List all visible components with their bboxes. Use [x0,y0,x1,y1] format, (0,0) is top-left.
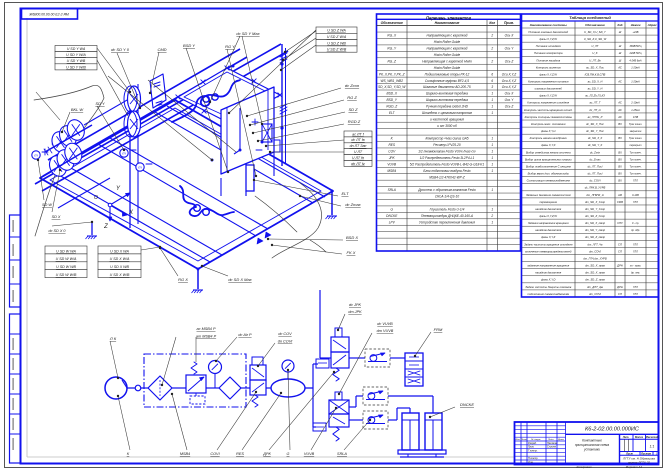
svg-text:1: 1 [491,111,493,115]
svg-text:Обозначение: Обозначение [585,23,605,27]
svg-text:Блок подготовки воздуха Festo: Блок подготовки воздуха Festo [423,169,470,173]
svg-text:dc_Zmax: dc_Zmax [589,157,601,161]
svg-text:фазы X,Y,Z,W: фазы X,Y,Z,W [540,37,558,41]
svg-text:U SD X W/B: U SD X W/B [110,273,130,277]
svg-text:Шаговые двигатели AD-200-75: Шаговые двигатели AD-200-75 [423,85,471,89]
svg-text:Листов: Листов [640,453,651,456]
svg-text:ac ЛТ f: ac ЛТ f [352,132,364,136]
svg-text:dm_ЛГТ_Чв: dm_ЛГТ_Чв [588,242,603,246]
svg-text:Подп.: Подп. [548,438,554,441]
svg-text:MSB4-1/2-47K042-WP-Z: MSB4-1/2-47K042-WP-Z [429,175,465,179]
svg-text:1: 1 [491,150,493,154]
svg-text:Наименование системы: Наименование системы [530,23,567,27]
svg-text:Оси X,Y,Z: Оси X,Y,Z [502,72,517,76]
svg-text:RES: RES [388,143,395,147]
svg-text:Шарико-винтовая передача: Шарико-винтовая передача [426,98,468,102]
svg-text:Масштаб: Масштаб [646,435,659,439]
svg-text:COVI: COVI [210,452,220,456]
svg-text:IСВ,ПМ,К,В,СПВ: IСВ,ПМ,К,В,СПВ [585,72,606,76]
svg-text:dc ЛТ fв: dc ЛТ fв [351,138,364,142]
svg-text:2: 2 [490,214,493,218]
svg-text:WS_WB1_WB2: WS_WB1_WB2 [381,79,404,83]
svg-text:Разраб.: Разраб. [528,442,537,445]
svg-text:Прим.: Прим. [504,21,514,25]
svg-text:1: 1 [491,105,493,109]
svg-text:1: 1 [491,137,493,141]
svg-text:др. лев.: др. лев. [631,272,640,275]
svg-text:Пневмоцилиндры ДНЦКЕ-40-160-А: Пневмоцилиндры ДНЦКЕ-40-160-А [421,214,473,218]
svg-text:BSD Y: BSD Y [183,43,195,48]
svg-text:O: O [94,195,98,201]
svg-text:SD W: SD W [42,203,52,207]
svg-text:U_SD_X,U_SD_Y: U_SD_X,U_SD_Y [584,30,606,34]
svg-text:U SD Y WB: U SD Y WB [67,59,86,63]
svg-text:Тип конеч.: Тип конеч. [629,165,641,168]
svg-text:ВХ: ВХ [618,136,622,140]
svg-text:dc SD X 0: dc SD X 0 [48,229,66,233]
svg-text:№ докум.: № докум. [531,438,541,441]
svg-text:Трех конеч.: Трех конеч. [629,123,643,126]
svg-text:U_K: U_K [592,51,597,55]
svg-text:Лист: Лист [520,439,527,441]
svg-text:BKL W: BKL W [71,107,85,112]
svg-text:ГЛЛ: ГЛЛ [633,243,638,246]
svg-text:Обозначение: Обозначение [381,21,403,25]
svg-text:Контроль толщины пневмосистемы: Контроль толщины пневмосистемы [525,115,572,119]
svg-text:ДРК: ДРК [262,452,271,456]
svg-text:2-10мА: 2-10мА [630,102,640,105]
svg-text:RG X: RG X [178,277,188,282]
svg-text:U ЛТ fн: U ЛТ fн [352,156,364,160]
svg-text:1-25мА: 1-25мА [631,109,640,112]
svg-text:Ось X: Ось X [505,92,515,96]
svg-text:DNCKE: DNCKE [460,402,474,407]
svg-text:dn ЛТ fг: dn ЛТ fг [351,162,365,166]
svg-text:dc_SD_Y_Пос: dc_SD_Y_Пос [586,129,604,133]
svg-text:Кол: Кол [489,21,495,25]
svg-text:Лист: Лист [625,453,634,456]
svg-text:4-24В 6мА: 4-24В 6мА [629,59,641,62]
svg-text:5/2 Распределитель Festo VUVB-: 5/2 Распределитель Festo VUVB-L-B42-G-G1… [410,162,485,166]
svg-text:и от 3000 об: и от 3000 об [437,124,457,128]
svg-text:U SD Z WB: U SD Z WB [327,41,346,45]
svg-text:SRLA: SRLA [337,452,347,456]
svg-text:Ресивер LPV25-20: Ресивер LPV25-20 [433,143,461,147]
svg-text:пр. обр.: пр. обр. [631,229,640,232]
svg-text:G: G [287,452,290,456]
svg-text:СПУ: СПУ [617,221,623,225]
svg-text:Задачных движения пневмосистем: Задачных движения пневмосистем [526,193,571,197]
svg-text:Подшипниковые опоры PK-12: Подшипниковые опоры PK-12 [425,72,470,76]
svg-text:SD X: SD X [52,215,61,219]
svg-text:U SD Y W/B: U SD Y W/B [66,65,86,69]
svg-text:Выбор лимба включения С секция: Выбор лимба включения С секциям [526,164,571,168]
svg-text:принципиальная схема: принципиальная схема [575,443,610,447]
svg-text:dm_SD_X_прав: dm_SD_X_прав [585,264,605,268]
svg-text:1: 1 [491,162,493,166]
svg-text:dc COV: dc COV [278,332,292,336]
svg-text:Пров.: Пров. [528,446,535,449]
svg-text:2: 2 [490,47,493,51]
svg-text:dc_SD_Y_0: dc_SD_Y_0 [588,143,603,147]
svg-text:dc Zcon: dc Zcon [345,83,360,88]
svg-text:фазы X,Y,Z: фазы X,Y,Z [541,235,555,239]
svg-text:Наименование: Наименование [435,21,460,25]
svg-text:1: 1 [491,98,493,102]
svg-text:U SD X WA: U SD X WA [110,249,129,253]
svg-text:U SD Y WA: U SD Y WA [67,47,86,51]
svg-text:и частотой вращения: и частотой вращения [430,117,464,121]
svg-text:1-20мА: 1-20мА [631,81,640,84]
svg-text:ac_Л2,Zb,Л1,КЗ: ac_Л2,Zb,Л1,КЗ [585,94,605,98]
svg-text:1: 1 [491,169,493,173]
svg-text:Т.контр.: Т.контр. [528,449,538,452]
svg-text:Контроль макс. положения: Контроль макс. положения [531,122,566,126]
svg-text:АС: АС [617,115,622,119]
svg-text:Ось X: Ось X [505,34,515,38]
svg-text:Оси X,Y,Z: Оси X,Y,Z [502,85,517,89]
svg-text:Питание шпинделя: Питание шпинделя [536,44,561,48]
svg-text:ВХ: ВХ [618,157,622,161]
svg-text:SRLA: SRLA [388,188,396,192]
svg-text:dc_Zmin: dc_Zmin [590,150,601,154]
svg-text:ac_ЛТ_Т: ac_ЛТ_Т [590,101,601,105]
svg-text:dm_COVI: dm_COVI [589,249,601,253]
svg-text:Перечень элементов: Перечень элементов [426,15,471,20]
svg-text:BSD_Y: BSD_Y [387,98,398,102]
svg-text:Утв.: Утв. [528,461,534,464]
svg-text:ВХ: ВХ [618,122,622,126]
svg-text:ГЛЛ: ГЛЛ [633,250,638,253]
svg-text:Контроль частоты вращения шпин: Контроль частоты вращения шпинд. [524,108,573,112]
svg-text:Компрессор «Has Garus GA5: Компрессор «Has Garus GA5 [426,137,469,141]
svg-text:RGD_Z: RGD_Z [386,105,398,109]
svg-text:dc_SD_X_Пос: dc_SD_X_Пос [586,122,604,126]
svg-text:dc_SD_X_0: dc_SD_X_0 [588,136,603,140]
svg-text:U_ЛТ: U_ЛТ [592,44,599,48]
svg-text:dc JPK: dc JPK [349,303,361,307]
svg-text:Н.контр.: Н.контр. [528,457,538,460]
svg-text:SD Y: SD Y [95,101,105,106]
svg-text:VUVB: VUVB [304,452,315,456]
svg-text:Задания направления вращения: Задания направления вращения [528,221,569,225]
svg-text:ВХ: ВХ [618,179,622,183]
svg-text:Копировал: Копировал [577,465,592,469]
svg-text:BSD_X: BSD_X [387,92,398,96]
svg-text:насадков двигателя: насадков двигателя [535,228,562,232]
svg-text:перемещения: перемещения [540,201,558,204]
svg-text:фазы X,Y,0: фазы X,Y,0 [541,143,555,147]
svg-text:Тип конеч.: Тип конеч. [629,173,641,176]
svg-text:dm_SD_Z_Напр: dm_SD_Z_Напр [585,235,605,239]
svg-text:dc SD Y Max: dc SD Y Max [236,31,260,36]
svg-text:RGD Z: RGD Z [348,119,361,124]
svg-text:фазы X,Y,D: фазы X,Y,D [541,278,555,282]
svg-text:Трех конеч.: Трех конеч. [629,137,643,140]
svg-text:dn ЛТ Зап: dn ЛТ Зап [350,144,367,148]
svg-text:RG Y: RG Y [225,44,235,49]
svg-text:RG_Z: RG_Z [387,59,397,63]
svg-text:1-20мА: 1-20мА [631,66,640,69]
svg-text:VUVB: VUVB [387,162,397,166]
svg-text:Л К: Л К [109,336,117,341]
svg-text:Ось Y: Ось Y [505,47,515,51]
svg-text:Направляющая с кареткой: Направляющая с кареткой [427,34,468,38]
svg-text:dm_COVI: dm_COVI [589,292,601,296]
svg-text:MSB4: MSB4 [180,452,190,456]
svg-text:ГЛЛ: ГЛЛ [633,180,638,183]
svg-text:RG_X: RG_X [387,34,397,38]
svg-text:Масса: Масса [635,435,644,439]
svg-text:Питание компрессора: Питание компрессора [534,51,563,55]
svg-text:U SD X WB: U SD X WB [110,265,129,269]
svg-text:3: 3 [491,85,493,89]
svg-text:1: 1 [491,188,493,192]
svg-text:1: 1 [491,208,493,212]
svg-text:U SD Z W/B: U SD Z W/B [327,48,347,52]
svg-text:ГЛЛ: ГЛЛ [633,293,638,296]
svg-text:Ручная передача Gebel 2HD: Ручная передача Gebel 2HD [426,105,469,109]
svg-text:ДРН: ДРН [616,264,623,268]
svg-text:dm_SD_Z_прав: dm_SD_Z_прав [585,278,605,282]
svg-text:ac_SD_X_Н: ac_SD_X_Н [588,80,603,84]
svg-text:К6-2-02.00.00.000ИС: К6-2-02.00.00.000ИС [585,427,640,433]
svg-text:380В/50Гц: 380В/50Гц [629,45,642,48]
svg-text:0-5В: 0-5В [633,116,639,119]
svg-text:dm_ГЛЧ,dm_УУРВ: dm_ГЛЧ,dm_УУРВ [583,256,606,260]
svg-text:U ЛТ: U ЛТ [354,150,363,154]
svg-text:Контроль напряжения питания: Контроль напряжения питания [528,80,569,84]
svg-text:FK X: FK X [347,250,356,255]
svg-text:am MSB4 P: am MSB4 P [196,335,217,339]
svg-text:dm_SD_Y_Скор: dm_SD_Y_Скор [585,207,605,211]
svg-text:U SD W W/B: U SD W W/B [56,273,77,277]
svg-text:U_ЛТ_Вк: U_ЛТ_Вк [589,58,601,62]
svg-text:подключение пневмоснабжением: подключение пневмоснабжением [527,292,569,296]
svg-text:Шарико-винтовая передача: Шарико-винтовая передача [426,92,468,96]
svg-text:Выбор верхн./низ. объемов воды: Выбор верхн./низ. объемов воды [528,172,569,176]
svg-text:6: 6 [491,72,493,76]
svg-text:Z: Z [103,224,108,230]
svg-text:АС: АС [617,65,622,69]
svg-text:Hiwin Roller Guide: Hiwin Roller Guide [434,40,461,44]
svg-text:Задачи частоты Защиты клапанов: Задачи частоты Защиты клапанов [525,285,572,289]
svg-text:dm_ДЛТ_фв: dm_ДЛТ_фв [587,285,603,289]
svg-text:АМ: АМ [617,193,623,197]
svg-text:dc Zmax: dc Zmax [345,202,361,207]
svg-text:Контактные: Контактные [582,439,602,443]
svg-text:dm_SD_X_прав: dm_SD_X_прав [585,271,605,275]
svg-text:U SD W W/A: U SD W W/A [56,257,77,261]
svg-text:СП: СП [618,249,622,253]
svg-text:dm VUVB: dm VUVB [377,329,394,333]
svg-text:dm_SD_Y_Напр: dm_SD_Y_Напр [585,228,606,232]
svg-text:ac_SD_X_Пос: ac_SD_X_Пос [586,65,604,69]
svg-text:RES: RES [236,452,244,456]
svg-text:1: 1 [491,143,493,147]
svg-text:PK_X,PK_Y,PK_Z: PK_X,PK_Y,PK_Z [379,72,406,76]
svg-text:группа ЛГТУ-32: группа ЛГТУ-32 [628,460,650,464]
svg-text:фазы X,Y,Z,W: фазы X,Y,Z,W [540,94,558,98]
svg-text:Ось Y: Ось Y [505,98,515,102]
svg-text:Тип конеч.: Тип конеч. [629,158,641,161]
svg-text:Питание насадков: Питание насадков [536,58,560,62]
svg-text:BSD X: BSD X [346,235,358,240]
svg-text:Каб: Каб [617,23,622,27]
svg-text:Ось Z: Ось Z [505,105,515,109]
svg-text:Лит.: Лит. [622,435,630,439]
svg-text:FRM: FRM [434,327,443,332]
svg-text:U SD Y W/A: U SD Y W/A [66,53,86,57]
svg-text:Таблица соединений: Таблица соединений [569,15,611,20]
svg-text:Контроль напряжения шпинделя: Контроль напряжения шпинделя [527,101,569,105]
svg-text:фазы X,Y,H: фазы X,Y,H [541,129,555,133]
svg-text:ELT: ELT [341,191,349,196]
svg-text:заданное направление вращения: заданное направление вращения [526,264,569,268]
svg-text:220В 50Гц: 220В 50Гц [628,52,642,55]
svg-text:Направляющая с кареткой: Направляющая с кареткой [427,47,468,51]
svg-text:АС: АС [617,108,622,112]
svg-text:Hiwin Roller Guide: Hiwin Roller Guide [434,53,461,57]
svg-text:ac MSB4 P: ac MSB4 P [197,327,216,331]
svg-text:RG Z: RG Z [347,95,357,100]
svg-text:1:1: 1:1 [650,445,655,449]
svg-text:Дата: Дата [557,439,565,441]
svg-text:1/2 Распределитель Festo 3L2P4: 1/2 Распределитель Festo 3L2P4-L1 [420,156,475,160]
svg-text:1: 1 [491,92,493,96]
svg-text:RG_Y: RG_Y [387,47,397,51]
svg-text:dc SD X Max: dc SD X Max [228,277,252,282]
svg-text:1: 1 [491,156,493,160]
svg-text:0-10В: 0-10В [632,194,639,197]
svg-text:SD Z: SD Z [348,107,358,112]
svg-text:dm_SD_X_Скор: dm_SD_X_Скор [585,200,605,204]
svg-text:ВХ: ВХ [618,150,622,154]
svg-text:Направляющая с кареткой Hiwin: Направляющая с кареткой Hiwin [422,59,472,63]
svg-text:Глушитель Festo U-1/4: Глушитель Festo U-1/4 [430,208,465,212]
svg-text:dm_ЛГВПК_Н: dm_ЛГВПК_Н [586,193,603,197]
svg-text:Ось Z: Ось Z [505,59,515,63]
svg-text:U SD W WA: U SD W WA [56,249,76,253]
svg-text:по - прав.: по - прав. [630,265,641,268]
svg-text:АС: АС [617,80,622,84]
svg-text:2: 2 [490,34,493,38]
svg-text:dc_ЛРК,В_УУРВ: dc_ЛРК,В_УУРВ [585,186,606,190]
svg-text:Hiwin Roller Guide: Hiwin Roller Guide [434,66,461,70]
svg-text:COV: COV [388,150,396,154]
svg-text:K: K [127,452,130,456]
svg-text:6: 6 [491,79,493,83]
svg-text:фазы X,Y,Z,W: фазы X,Y,Z,W [540,214,558,218]
svg-text:фазы X,Y,Z,W: фазы X,Y,Z,W [540,72,558,76]
svg-text:dc Air P: dc Air P [238,333,252,337]
svg-text:Пахомов: Пахомов [547,442,558,445]
svg-text:перекрыт: перекрыт [629,144,641,147]
svg-text:U SD X W/A: U SD X W/A [110,257,130,261]
svg-text:ВХ: ВХ [618,164,622,168]
svg-text:0 - пр.: 0 - пр. [632,222,639,225]
svg-text:CMD: CMD [157,47,166,52]
svg-text:АС: АС [617,101,622,105]
svg-text:СП: СП [618,292,622,296]
svg-text:ГЛЛ: ГЛЛ [633,286,638,289]
svg-text:Ж6В00.00.00.00 Е2-2-ЯМ: Ж6В00.00.00.00 Е2-2-ЯМ [28,13,69,17]
svg-text:U SD Z WA: U SD Z WA [327,29,346,33]
svg-text:SD_X,SD_Y,SD_W: SD_X,SD_Y,SD_W [378,85,406,89]
svg-text:Устройство переключения давлен: Устройство переключения давления [419,220,475,224]
svg-text:шаговых двигателей: шаговых двигателей [535,87,563,91]
svg-text:ВХ: ВХ [618,172,622,176]
svg-text:СМВ: СМВ [617,200,623,204]
svg-text:dc SD Y 0: dc SD Y 0 [111,47,130,52]
svg-text:dc VUVB: dc VUVB [377,322,393,326]
svg-text:JPK: JPK [389,156,396,160]
svg-text:закрытие: закрытие [629,130,642,133]
svg-text:СП: СП [618,242,622,246]
svg-text:Шпиндель с цанговым патроном: Шпиндель с цанговым патроном [422,111,472,115]
svg-text:Сильфонные муфты BF2-4,5: Сильфонные муфты BF2-4,5 [425,79,469,83]
svg-text:ac_ЛГПН_Р: ac_ЛГПН_Р [588,115,603,119]
svg-text:Контроль начала калибровки: Контроль начала калибровки [530,136,568,140]
svg-text:ac_SD_Y_Н: ac_SD_Y_Н [588,87,603,91]
svg-text:Выбор семейства начала отсчета: Выбор семейства начала отсчета [526,150,571,154]
svg-text:Строев: Строев [547,446,557,449]
svg-text:Сигнализация пневмоснабжением: Сигнализация пневмоснабжением [527,179,570,183]
svg-text:насадков двигателя: насадков двигателя [535,271,562,275]
svg-text:dn COVI: dn COVI [278,340,294,344]
svg-text:установки: установки [583,448,600,452]
svg-text:Питание шаговых двигателей: Питание шаговых двигателей [528,30,568,34]
svg-text:1/2 пневмоклапан Festo VUVx-hv: 1/2 пневмоклапан Festo VUVx-hvac-crv [418,150,476,154]
svg-text:насадков двигателя: насадков двигателя [535,207,562,211]
svg-text:Задачи частоты вращения шпинде: Задачи частоты вращения шпинделя [524,242,573,246]
svg-text:dc_COVI: dc_COVI [590,179,601,183]
svg-text:dc_ЛТ_Пocl: dc_ЛТ_Пocl [588,164,603,168]
svg-text:Тип конеч.: Тип конеч. [629,151,641,154]
svg-text:1: 1 [491,220,493,224]
svg-text:dc_ЛТ_Пocl: dc_ЛТ_Пocl [588,172,603,176]
svg-text:Формат А1: Формат А1 [626,465,643,469]
svg-text:ДРН: ДРН [616,285,623,289]
svg-text:Контроль вылетов: Контроль вылетов [536,65,561,69]
svg-text:Изм: Изм [516,439,521,441]
svg-text:dm JPK: dm JPK [348,310,362,314]
svg-text:U SD W WB: U SD W WB [56,265,76,269]
svg-text:Дроссель с обратным клапаном F: Дроссель с обратным клапаном Festo [417,188,476,192]
svg-text:Адрес: Адрес [647,23,658,27]
svg-text:DNCKE: DNCKE [386,214,398,218]
svg-text:ГЛЛ: ГЛЛ [633,201,638,204]
svg-text:dm_SD_X_Напр: dm_SD_X_Напр [585,221,606,225]
svg-text:dc_ЛТ_Н: dc_ЛТ_Н [589,108,600,112]
svg-text:U SD Z W/A: U SD Z W/A [327,35,347,39]
svg-text:Выбор цикла вращательных клави: Выбор цикла вращательных клавиш [525,157,573,161]
svg-text:U_SD_Z,U_SD_W: U_SD_Z,U_SD_W [584,37,607,41]
svg-text:MSB4: MSB4 [387,169,396,173]
svg-text:dm_SD_Z_Скор: dm_SD_Z_Скор [585,214,605,218]
svg-text:2: 2 [490,59,493,63]
svg-text:Оси X,Y,Z: Оси X,Y,Z [502,79,517,83]
svg-text:LPV: LPV [389,220,396,224]
svg-text:+24В: +24В [633,31,639,34]
svg-text:включение пневмораспределителе: включение пневмораспределителей [525,249,572,253]
svg-text:Зажим: Зажим [631,23,642,27]
svg-text:CRLA-1/4-QS-10: CRLA-1/4-QS-10 [435,195,459,199]
